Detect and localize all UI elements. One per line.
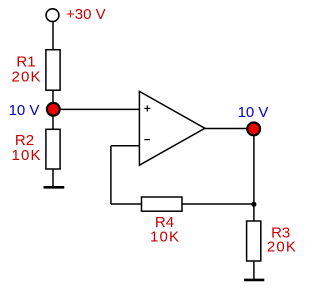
svg-text:10 V: 10 V xyxy=(238,104,269,121)
ground (left) xyxy=(44,186,65,189)
wire feedback vertical xyxy=(110,146,112,204)
svg-text:10K: 10K xyxy=(11,147,41,164)
wire output node down to junction and R3 xyxy=(253,129,255,222)
output node 10V (red dot) xyxy=(247,122,260,135)
op-amp - input mark xyxy=(144,139,150,141)
resistor R3 xyxy=(247,221,261,261)
wire op-amp output xyxy=(205,128,254,130)
junction dot xyxy=(251,202,256,207)
resistor R4 xyxy=(142,197,183,211)
svg-text:+30 V: +30 V xyxy=(66,6,106,23)
wire node to op-amp + input xyxy=(53,108,139,110)
power terminal +30V xyxy=(46,9,59,22)
wire R4 to junction xyxy=(182,203,254,205)
ground (right) xyxy=(244,279,264,282)
op-amp + input mark xyxy=(144,105,150,111)
wire R2 to ground xyxy=(52,169,54,186)
op-amp U1 xyxy=(139,91,205,165)
resistor R2 xyxy=(46,129,60,169)
wire feedback to R4 xyxy=(111,203,142,205)
svg-text:10K: 10K xyxy=(150,228,180,245)
wire terminal to R1 xyxy=(52,22,54,50)
wire node to R2 xyxy=(52,109,54,129)
resistor R1 xyxy=(46,50,60,90)
wire R3 to ground xyxy=(253,261,255,279)
wire op-amp - input xyxy=(111,145,139,147)
svg-text:10 V: 10 V xyxy=(9,102,40,119)
svg-text:20K: 20K xyxy=(11,69,41,86)
node 10V (red dot) xyxy=(47,103,60,116)
svg-text:20K: 20K xyxy=(267,239,297,256)
wire R1 to node xyxy=(52,90,54,109)
